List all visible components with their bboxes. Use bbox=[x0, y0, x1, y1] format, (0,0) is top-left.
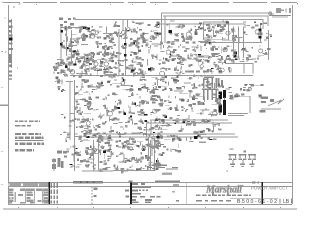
mid bus end marks bbox=[194, 136, 210, 143]
junction dots bbox=[101, 82, 200, 137]
svg-text:POWER AMP CCT: POWER AMP CCT bbox=[251, 185, 288, 190]
output tube section lower bbox=[66, 140, 164, 170]
long feedback bus wires bbox=[75, 12, 272, 44]
preamp components upper band bbox=[113, 21, 235, 63]
left edge connector chain CON1 bbox=[5, 19, 18, 80]
far left fringe bbox=[60, 113, 74, 142]
svg-text:LB: LB bbox=[283, 199, 290, 205]
svg-text:B500-61-02: B500-61-02 bbox=[237, 199, 277, 205]
lower section fringe bbox=[99, 168, 155, 173]
top-right revision stamp box bbox=[269, 8, 291, 17]
svg-text:Marshall: Marshall bbox=[205, 184, 242, 195]
revision and title block table grid bbox=[8, 182, 292, 205]
Marshall script logo bbox=[205, 184, 244, 195]
right frame line bbox=[292, 5, 293, 204]
left fold mark bbox=[0, 105, 8, 106]
revision history entries bbox=[8, 183, 48, 204]
notes text block bbox=[15, 120, 44, 151]
input stage lower band bbox=[53, 58, 104, 78]
input stage components left bbox=[60, 26, 115, 65]
connector pin stack CON3 bbox=[156, 158, 178, 175]
upper right components bbox=[232, 21, 272, 59]
arrow area left bbox=[103, 62, 118, 74]
main schematic wires bbox=[66, 25, 269, 172]
title block misc marks bbox=[172, 184, 199, 201]
drawn-checked-approved labels bbox=[132, 183, 161, 203]
upper mid band components bbox=[100, 58, 235, 81]
driver section components center bbox=[74, 79, 221, 143]
left margin tick A bbox=[5, 17, 6, 18]
mains transformer symbols T1 bbox=[52, 151, 67, 172]
title block small print row bbox=[196, 194, 251, 196]
left margin tick D bbox=[2, 151, 3, 152]
transformer cluster left bbox=[55, 77, 65, 92]
outer top trim line with zone ticks bbox=[2, 2, 299, 6]
lower mid sparse bbox=[163, 143, 181, 152]
V1 input stage wiring bbox=[60, 26, 102, 86]
labels under mid bus bbox=[122, 141, 159, 150]
bias test point symbols TP1-TP3 bbox=[227, 148, 257, 171]
outer bottom trim line with zone ticks bbox=[3, 207, 297, 210]
center left fringe bbox=[74, 87, 89, 141]
left margin tick E bbox=[2, 184, 3, 185]
output transformer primary T2 bbox=[188, 70, 223, 100]
frame top-left dash bbox=[13, 7, 15, 8]
issue table entries bbox=[50, 180, 180, 204]
sheet info small print bbox=[197, 200, 231, 202]
right mid cluster bbox=[222, 84, 263, 100]
output jack symbol SK1 bbox=[260, 97, 285, 113]
left frame line bbox=[8, 5, 9, 204]
send-return box U2 bbox=[203, 22, 229, 41]
input jack cluster J1 bbox=[59, 18, 76, 30]
drawing number B500-61-02 LB bbox=[230, 182, 292, 206]
left margin tick C bbox=[2, 87, 3, 88]
upper right mid cluster bbox=[226, 55, 257, 63]
left margin tick B bbox=[2, 51, 3, 52]
